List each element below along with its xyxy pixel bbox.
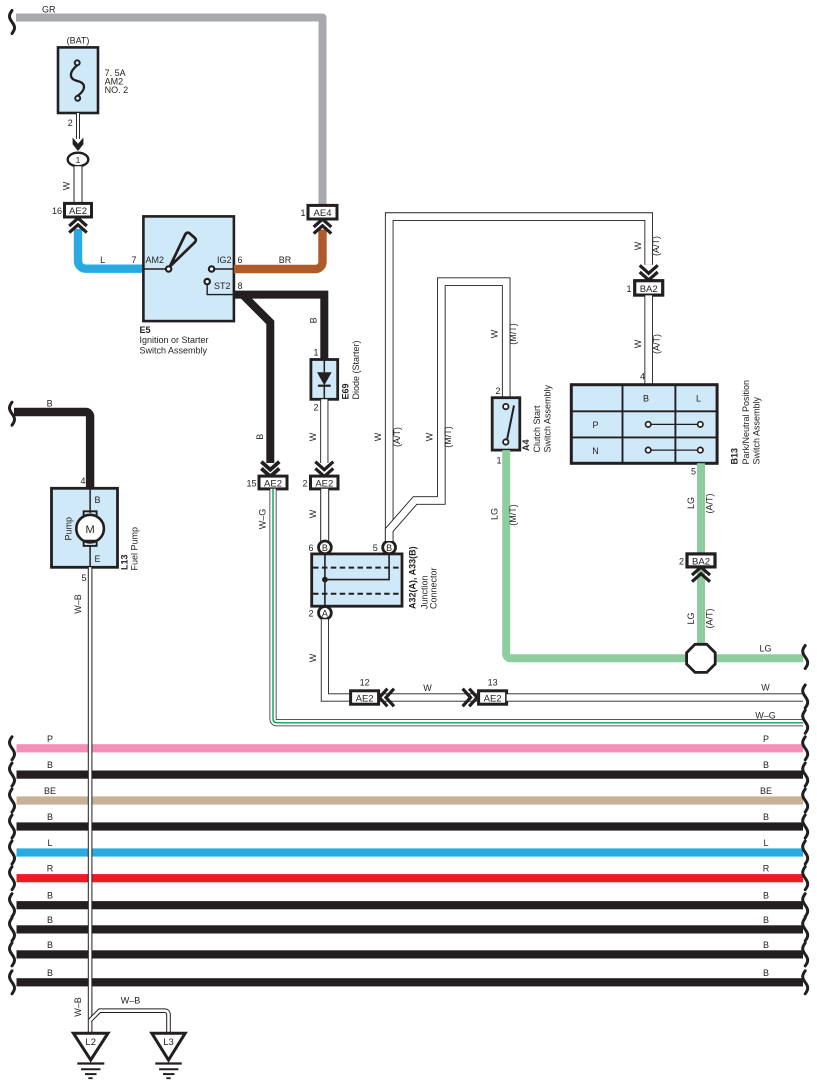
svg-text:AE2: AE2 [356, 693, 374, 704]
svg-text:M: M [86, 524, 95, 536]
svg-text:(A/T): (A/T) [392, 427, 402, 447]
svg-text:E69: E69 [341, 383, 351, 399]
svg-text:12: 12 [360, 678, 370, 688]
node B pin 6 [319, 541, 332, 554]
svg-text:W–B: W–B [121, 996, 141, 1006]
svg-text:B: B [47, 399, 53, 409]
wire W (A/T) junction B5 to 1 BA2 [389, 217, 649, 541]
wire L (harness bar at y=852.5) [17, 838, 804, 857]
svg-text:W: W [308, 653, 318, 662]
svg-text:LG: LG [686, 612, 696, 624]
ground L2 [73, 1033, 108, 1078]
ignition switch E5 [143, 216, 234, 321]
svg-text:Clutch Start: Clutch Start [532, 405, 542, 453]
break symbol right of B bar [803, 918, 808, 941]
svg-text:B: B [47, 968, 53, 978]
break symbol left end of B wire [10, 402, 15, 425]
wire W fuse to connector 1 (thin double line) [76, 113, 80, 139]
svg-text:(BAT): (BAT) [67, 36, 90, 46]
break symbol left of B bar [10, 763, 15, 786]
svg-text:5: 5 [81, 573, 86, 583]
svg-text:W: W [308, 509, 318, 518]
wire W junction A to 12 AE2 [325, 619, 351, 697]
svg-text:LG: LG [686, 497, 696, 509]
svg-text:(A/T): (A/T) [705, 609, 715, 629]
chevron left after 12 AE2 [379, 689, 394, 707]
break symbol left of R bar [10, 867, 15, 890]
svg-text:R: R [763, 864, 770, 874]
svg-text:W: W [373, 432, 383, 441]
svg-text:W: W [425, 432, 435, 441]
wire B (harness bar at y=982.3) [17, 968, 804, 987]
connector 16 AE2 [52, 203, 92, 217]
svg-text:Switch Assembly: Switch Assembly [752, 396, 762, 464]
svg-text:(A/T): (A/T) [651, 236, 661, 256]
svg-text:IG2: IG2 [217, 255, 232, 265]
svg-text:P: P [47, 734, 53, 744]
svg-text:Ignition or Starter: Ignition or Starter [140, 335, 209, 345]
break symbol left of L bar [10, 841, 15, 864]
svg-text:B: B [309, 317, 319, 323]
break symbol left of B bar [10, 815, 15, 838]
svg-text:B: B [763, 968, 769, 978]
connector 1 (ellipse) [68, 153, 89, 167]
wire LG octagon to right edge [713, 654, 803, 662]
svg-text:L2: L2 [85, 1037, 96, 1048]
wire LG (A/T) 2 BA2 to octagon [697, 569, 705, 647]
svg-text:L13: L13 [120, 554, 130, 570]
svg-text:(M/T): (M/T) [443, 426, 453, 448]
svg-text:1: 1 [300, 208, 305, 218]
svg-text:W: W [633, 339, 643, 348]
svg-text:1: 1 [76, 155, 81, 165]
svg-text:2: 2 [313, 403, 318, 413]
park/neutral position switch B13 [571, 385, 717, 464]
svg-text:L: L [696, 394, 701, 404]
break symbol right of L bar [803, 841, 808, 864]
wire B (black) E5 ST2 to diode and 15 AE2 [234, 295, 324, 463]
svg-text:BA2: BA2 [640, 284, 658, 295]
wire W-B branch to ground L3 [90, 1011, 168, 1033]
fuse AM2 NO.2 7.5A [58, 47, 128, 113]
wire BR (brown) IG2 to 1 AE4 [234, 230, 323, 270]
break symbol left of B bar [10, 971, 15, 994]
svg-text:B: B [763, 812, 769, 822]
svg-text:B: B [763, 760, 769, 770]
chevron down into 1 BA2 [640, 265, 658, 280]
chevron right before 13 AE2 [463, 689, 478, 707]
wire L (blue) 16 AE2 to E5 AM2 [78, 229, 143, 269]
svg-text:A32(A), A33(B): A32(A), A33(B) [408, 546, 418, 609]
svg-text:B: B [47, 940, 53, 950]
svg-text:W–B: W–B [73, 997, 83, 1017]
wire W diode to 2 AE2 [320, 399, 328, 463]
break symbol right of B bar [803, 943, 808, 966]
svg-text:W: W [633, 241, 643, 250]
chevron down into 15 AE2 [261, 462, 279, 477]
svg-text:BE: BE [760, 786, 772, 796]
wire W-B fuel pump to ground L2 (crosses harness bars) [88, 567, 93, 1033]
svg-text:(A/T): (A/T) [705, 494, 715, 514]
svg-text:B: B [386, 543, 392, 553]
wire W 12 AE2 to 13 AE2 [379, 693, 479, 701]
svg-text:W–G: W–G [258, 509, 268, 530]
break symbol left of B bar [10, 894, 15, 917]
svg-text:Pump: Pump [64, 517, 74, 541]
fuel pump L13 [52, 488, 118, 567]
wire LG (M/T) A4 to octagon junction [506, 450, 689, 658]
svg-text:B: B [763, 915, 769, 925]
svg-text:2: 2 [68, 118, 73, 128]
svg-text:B13: B13 [730, 448, 740, 465]
svg-text:5: 5 [691, 467, 696, 477]
break symbol left of B bar [10, 943, 15, 966]
svg-text:Connector: Connector [429, 567, 439, 609]
svg-text:GR: GR [42, 5, 56, 15]
svg-text:B: B [643, 394, 649, 404]
break symbol right of BE bar [803, 789, 808, 812]
svg-text:2: 2 [302, 478, 307, 488]
svg-text:B: B [47, 915, 53, 925]
wire B (harness bar at y=954.4) [17, 940, 804, 959]
svg-text:LG: LG [490, 508, 500, 520]
break symbol right of B bar [803, 971, 808, 994]
chevron up into 1 AE4 [314, 219, 332, 233]
svg-text:1: 1 [626, 284, 631, 294]
connector 1 AE4 [300, 205, 337, 219]
break symbol right end of LG [803, 646, 808, 669]
svg-text:1: 1 [313, 348, 318, 358]
break symbol right end of W-G [803, 710, 808, 733]
break symbol right of B bar [803, 894, 808, 917]
svg-text:2: 2 [495, 386, 500, 396]
svg-text:(M/T): (M/T) [508, 504, 518, 526]
wire W 13 AE2 to right edge [507, 693, 803, 701]
junction connector A32(A) A33(B) [312, 554, 402, 606]
svg-text:Fuel Pump: Fuel Pump [130, 527, 140, 571]
wire W-G (white-green) 15 AE2 to right edge [273, 489, 803, 723]
svg-text:L: L [47, 838, 52, 848]
svg-text:B: B [47, 760, 53, 770]
svg-text:2: 2 [679, 556, 684, 566]
svg-text:P: P [763, 734, 769, 744]
svg-text:B: B [255, 434, 265, 440]
svg-text:A4: A4 [521, 439, 531, 451]
svg-text:BE: BE [44, 786, 56, 796]
svg-text:AE4: AE4 [314, 208, 332, 219]
connector 13 AE2 [479, 678, 507, 705]
svg-text:8: 8 [238, 281, 243, 291]
svg-text:Park/Neutral Position: Park/Neutral Position [741, 380, 751, 465]
wire W connector 1 to AE2 [74, 166, 83, 203]
svg-text:W: W [308, 432, 318, 441]
svg-text:AE2: AE2 [315, 478, 333, 489]
svg-text:LG: LG [759, 644, 771, 654]
svg-text:NO. 2: NO. 2 [105, 85, 129, 95]
svg-text:Diode (Starter): Diode (Starter) [351, 340, 361, 399]
svg-text:B: B [95, 495, 101, 505]
svg-text:4: 4 [640, 372, 645, 382]
diode E69 (Starter) [311, 360, 338, 400]
svg-text:2: 2 [308, 609, 313, 619]
wire GR (gray, battery feed) [16, 18, 323, 206]
svg-text:Switch Assembly: Switch Assembly [140, 346, 208, 356]
svg-text:1: 1 [496, 456, 501, 466]
svg-text:L3: L3 [163, 1037, 174, 1048]
svg-text:N: N [592, 446, 599, 456]
svg-text:6: 6 [308, 543, 313, 553]
svg-text:ST2: ST2 [214, 281, 231, 291]
svg-text:E5: E5 [140, 325, 151, 335]
svg-text:P: P [592, 420, 598, 430]
svg-text:W: W [62, 181, 72, 190]
svg-text:(A/T): (A/T) [652, 334, 662, 354]
svg-text:W–B: W–B [73, 594, 83, 614]
svg-text:B: B [47, 891, 53, 901]
wire B (black) to fuel pump [14, 412, 90, 488]
node B pin 5 [383, 541, 396, 554]
svg-text:W: W [761, 683, 770, 693]
wire R (harness bar at y=878.2) [17, 864, 804, 883]
wire W (M/T) junction B5 to A4 clutch switch [389, 282, 506, 540]
wire B (harness bar at y=905.2) [17, 891, 804, 910]
svg-text:6: 6 [238, 255, 243, 265]
svg-text:B: B [322, 543, 328, 553]
svg-text:B: B [47, 812, 53, 822]
svg-text:B: B [763, 891, 769, 901]
wire LG (A/T) B13 pin 5 to 2 BA2 [697, 463, 705, 554]
svg-text:E: E [95, 554, 101, 564]
svg-text:A: A [322, 608, 328, 618]
svg-text:Switch Assembly: Switch Assembly [543, 384, 553, 452]
connector 15 AE2 [246, 476, 287, 489]
wire B (harness bar at y=826.5) [17, 812, 804, 831]
svg-text:W–G: W–G [755, 711, 776, 721]
break symbol left of B bar [10, 918, 15, 941]
svg-text:L: L [763, 838, 768, 848]
svg-text:AE2: AE2 [69, 206, 87, 217]
connector 12 AE2 [351, 678, 379, 705]
svg-text:13: 13 [488, 678, 498, 688]
wire B (harness bar at y=774.6) [17, 760, 804, 779]
node octagon junction [687, 644, 716, 672]
ground L3 [152, 1033, 185, 1078]
break symbol right of R bar [803, 867, 808, 890]
svg-text:4: 4 [80, 476, 85, 486]
svg-text:AM2: AM2 [146, 255, 165, 265]
break symbol right end of W [803, 685, 808, 708]
svg-text:AE2: AE2 [484, 693, 502, 704]
svg-text:W: W [423, 683, 432, 693]
chevron up into 16 AE2 [69, 218, 87, 232]
break symbol left of BE bar [10, 789, 15, 812]
wire BE (harness bar at y=800.5) [17, 786, 804, 805]
svg-text:L: L [100, 255, 105, 265]
wire W 2 AE2 to junction connector B6 [320, 489, 329, 541]
svg-text:B: B [763, 940, 769, 950]
chevron up below 2 BA2 [692, 567, 710, 582]
svg-text:BR: BR [279, 255, 292, 265]
clutch start switch A4 [492, 398, 520, 450]
svg-text:W: W [490, 329, 500, 338]
node A pin 2 [319, 607, 332, 620]
break symbol left of P bar [10, 737, 15, 760]
wire W (A/T) 1 BA2 to B13 pin 4 [644, 295, 653, 384]
connector 2 BA2 [679, 554, 715, 567]
svg-text:AE2: AE2 [264, 478, 282, 489]
break symbol right of B bar [803, 763, 808, 786]
svg-text:7: 7 [131, 255, 136, 265]
svg-text:R: R [47, 864, 54, 874]
break symbol right of P bar [803, 737, 808, 760]
svg-text:(M/T): (M/T) [508, 323, 518, 345]
svg-text:5: 5 [373, 543, 378, 553]
break symbol left end of GR wire [10, 11, 15, 34]
wire P (harness bar at y=748.3) [17, 734, 804, 753]
arrow into connector 1 [73, 138, 84, 152]
break symbol right of B bar [803, 815, 808, 838]
svg-text:16: 16 [52, 206, 62, 216]
connector 2 AE2 [302, 476, 338, 489]
connector 1 BA2 [626, 281, 662, 295]
chevron down into 2 AE2 [315, 462, 333, 477]
wire B (harness bar at y=929.4) [17, 915, 804, 934]
svg-text:15: 15 [246, 478, 256, 488]
